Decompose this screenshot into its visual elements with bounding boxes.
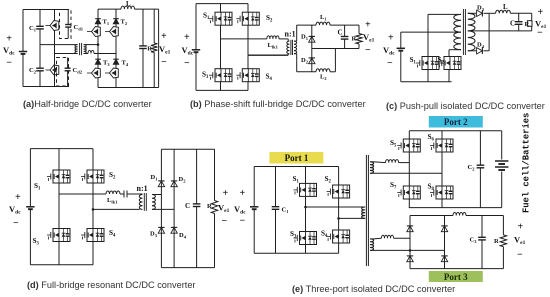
- svg-text:−: −: [365, 45, 371, 56]
- svg-text:R: R: [207, 203, 212, 210]
- svg-text:+: +: [538, 7, 544, 18]
- svg-text:Fuel cell/Batteries: Fuel cell/Batteries: [522, 113, 532, 213]
- svg-text:(c) Push-pull isolated DC/DC c: (c) Push-pull isolated DC/DC converter: [386, 101, 545, 111]
- svg-text:n:1: n:1: [137, 184, 148, 193]
- svg-text:−: −: [222, 216, 228, 227]
- svg-text:R: R: [352, 36, 357, 43]
- svg-text:−: −: [13, 218, 19, 229]
- svg-text:L: L: [126, 0, 131, 8]
- svg-text:(e) Three-port isolated DC/DC: (e) Three-port isolated DC/DC converter: [292, 284, 455, 294]
- svg-text:−: −: [184, 58, 190, 69]
- svg-text:+: +: [240, 188, 246, 199]
- svg-text:C: C: [510, 20, 515, 28]
- svg-text:−: −: [6, 57, 12, 68]
- svg-text:C: C: [338, 29, 343, 37]
- svg-text:+: +: [223, 188, 229, 199]
- svg-text:R: R: [147, 46, 152, 53]
- svg-text:+: +: [518, 222, 524, 233]
- svg-text:Port 3: Port 3: [444, 272, 468, 282]
- svg-text:n:1: n:1: [285, 30, 296, 39]
- svg-text:Port 1: Port 1: [285, 153, 309, 163]
- svg-text:+: +: [15, 192, 21, 203]
- svg-text:(a)Half-bridge DC/DC converter: (a)Half-bridge DC/DC converter: [23, 99, 152, 109]
- svg-text:Port 2: Port 2: [444, 117, 468, 127]
- svg-text:+: +: [6, 33, 12, 44]
- svg-text:L: L: [503, 3, 508, 11]
- svg-text:(d) Full-bridge resonant DC/DC: (d) Full-bridge resonant DC/DC converter: [27, 280, 196, 290]
- svg-text:−: −: [161, 57, 167, 68]
- svg-text:+: +: [161, 31, 167, 42]
- svg-text:−: −: [517, 250, 523, 261]
- svg-text:R: R: [494, 238, 499, 245]
- svg-text:+: +: [365, 20, 371, 31]
- svg-text:(b) Phase-shift full-bridge DC: (b) Phase-shift full-bridge DC/DC conver…: [190, 99, 366, 109]
- svg-text:+: +: [184, 32, 190, 43]
- svg-text:C: C: [185, 202, 190, 210]
- svg-text:R: R: [525, 21, 530, 28]
- svg-text:−: −: [387, 58, 393, 69]
- svg-text:+: +: [388, 33, 394, 44]
- svg-text:−: −: [240, 215, 246, 226]
